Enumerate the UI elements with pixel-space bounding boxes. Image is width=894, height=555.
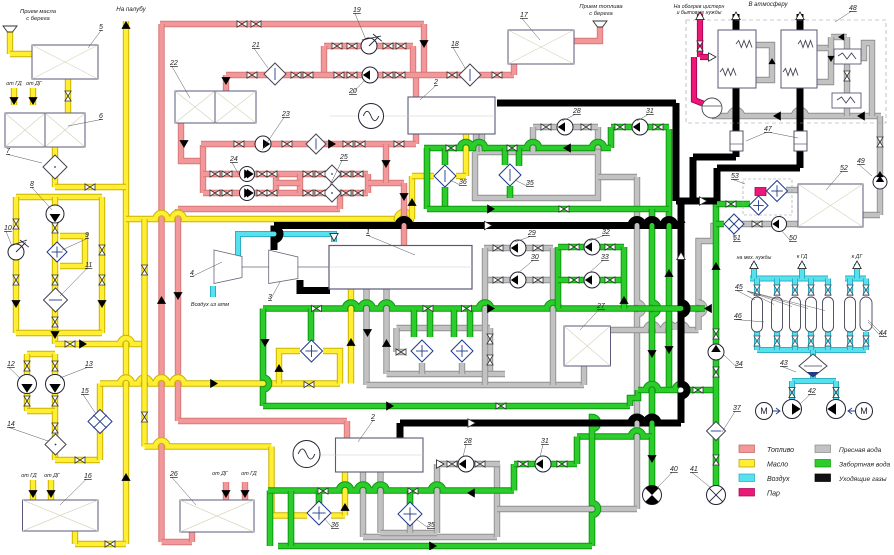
steam heater 53a: [767, 181, 788, 202]
valve fuel y75 d: [395, 72, 405, 78]
svg-text:43: 43: [780, 360, 788, 367]
arrow exhaust stack A: [732, 12, 740, 20]
label 43: [782, 367, 796, 373]
arrow fuel x386: [381, 160, 390, 168]
wire oil return x144: [141, 219, 147, 447]
wire oil tank15 stub: [72, 531, 78, 544]
wire fuel DG1 inlet x416: [413, 75, 419, 99]
wire oil funnel to tank5: [10, 51, 32, 57]
arrow fuel tank26 a: [221, 490, 230, 498]
arrow oil y383: [210, 379, 218, 388]
label 37: [722, 412, 735, 433]
wire fresh-water x831 up: [828, 37, 834, 48]
svg-text:15: 15: [81, 388, 89, 395]
arrow green x669 up: [664, 269, 673, 277]
arrow econ top: [838, 33, 844, 40]
arrow oil tank6 b: [28, 97, 37, 105]
svg-text:24: 24: [229, 156, 238, 163]
valve pump28b a: [447, 461, 457, 467]
wire fuel pump block left header: [200, 145, 206, 193]
svg-text:Забортная вода: Забортная вода: [839, 461, 891, 469]
svg-text:Топливо: Топливо: [767, 447, 794, 454]
label 10: [6, 232, 12, 247]
legend swatch Пар: [739, 489, 755, 497]
svg-text:16: 16: [84, 473, 92, 480]
wire fuel tank17 drop: [511, 64, 517, 75]
arrow oil riser x412: [407, 198, 416, 206]
valve pump31b a: [518, 461, 528, 467]
valve oil bottom y544: [105, 541, 115, 547]
valve fuel y75 b: [347, 72, 357, 78]
fuel filter 25a: [323, 165, 341, 183]
economizer upper coil: [838, 53, 856, 59]
wire oil deck main x126: [123, 21, 129, 544]
label 1: [368, 236, 415, 256]
arrow gray x386 up: [382, 339, 391, 347]
label 33: [589, 261, 603, 274]
wire oil от ДГ stub tank15 b: [48, 480, 54, 500]
water cooler 35b: [398, 502, 422, 526]
air bottle foot valve 0: [754, 336, 760, 346]
valve fuel y75 c: [383, 72, 393, 78]
oil transfer pump 8: [46, 205, 64, 223]
water cooler 31a: [411, 340, 433, 362]
sea filter 37: [707, 422, 726, 441]
air bottle head valve 2: [792, 285, 798, 295]
wire fuel booster line y46: [324, 43, 413, 49]
fuel pump 20: [362, 67, 378, 83]
wire oil от ГД stub tank15 a: [30, 480, 36, 500]
svg-text:Воздух: Воздух: [767, 475, 790, 483]
valve fuel y144 b: [282, 141, 292, 147]
arrow pump24b: [244, 188, 252, 197]
economizer upper: [834, 49, 861, 64]
arrow fuel x404: [399, 193, 408, 201]
valve loopB a1: [569, 244, 579, 250]
wire seawater x611 riser: [608, 127, 615, 148]
oil filter 7: [43, 155, 67, 179]
valve fuel row a8: [353, 171, 363, 177]
wire air top manifold left: [750, 276, 828, 282]
wire fresh-water x497 up: [494, 464, 500, 537]
wire air bottle 5 top riser: [847, 279, 853, 297]
wire seawater HX31 d1 stub in: [411, 310, 418, 337]
wire fresh-water econ stack: [844, 37, 850, 116]
svg-text:41: 41: [690, 466, 698, 473]
valve freshwater y224: [752, 221, 762, 227]
svg-text:На палубу: На палубу: [116, 6, 146, 13]
turbocharger turbine 3: [269, 250, 298, 284]
wire seawater y209: [427, 206, 669, 213]
sea filter 51: [724, 214, 744, 234]
label 44 second leader: [868, 320, 884, 336]
wire fuel DG2 drop x347: [344, 421, 350, 438]
label 15: [83, 395, 96, 415]
wire oil tank6 outlet: [52, 147, 58, 187]
valve oil pump13 b: [52, 396, 58, 406]
label 7: [8, 155, 42, 164]
wire oil tank5 outlet: [65, 79, 71, 113]
svg-text:19: 19: [353, 7, 361, 14]
arrow gray pump28b: [436, 460, 444, 468]
wire oil filter9 bypass: [60, 236, 85, 266]
label 53: [733, 180, 745, 185]
svg-text:M: M: [760, 406, 768, 416]
seawater pump 31b: [535, 456, 551, 472]
label 12: [9, 368, 20, 379]
valve green y209: [559, 206, 569, 212]
label 16: [60, 480, 86, 506]
economizer lower: [832, 93, 861, 108]
wire steam heater stub: [755, 188, 766, 196]
wire fuel funnel inlet: [574, 27, 600, 41]
label 21: [254, 49, 268, 69]
wire fresh-water x598 riser: [595, 127, 601, 152]
valve oil x55 a: [52, 223, 58, 233]
wire fuel right header: [365, 174, 371, 193]
wire seawater DG1 pump row green: [611, 124, 669, 131]
fuel fine filter: [306, 134, 326, 154]
wire seawater HX35 bottom stub: [507, 186, 514, 198]
wire seawater HX36 bottom stub: [442, 187, 449, 209]
svg-text:1: 1: [366, 229, 370, 236]
svg-text:Прием масла: Прием масла: [20, 9, 57, 15]
wire steam to boilerA: [700, 54, 712, 60]
wire oil riser x412: [409, 176, 415, 219]
svg-text:4: 4: [190, 270, 194, 277]
valve dg1 row d: [653, 124, 663, 130]
wire oil pump manifold top: [27, 351, 55, 357]
wire air feed DG: [854, 264, 860, 279]
wire fresh-water HX35b loop bottom: [381, 530, 438, 536]
label 45: [737, 291, 755, 301]
valve fuel row b5: [303, 190, 313, 196]
svg-text:2: 2: [370, 414, 375, 421]
wire oil pump manifold bottom: [27, 408, 55, 414]
label 2: [358, 421, 373, 443]
air bottle head valve 3: [808, 285, 814, 295]
label 6: [68, 120, 101, 127]
exhaust silencer 47a: [730, 131, 743, 151]
legend swatch Воздух: [739, 474, 755, 482]
fuel settling tank 22: [175, 91, 256, 123]
wire oil HX30 loop: [279, 351, 300, 384]
svg-text:53: 53: [731, 173, 739, 180]
svg-text:37: 37: [733, 405, 742, 412]
wire seawater bottom main y546: [278, 543, 592, 550]
svg-text:Воздух из атм: Воздух из атм: [191, 302, 229, 308]
wire exhaust bus y201: [676, 198, 717, 205]
wire fresh-water DG1 drain b: [479, 134, 485, 152]
label 20: [351, 81, 364, 95]
svg-text:M: M: [860, 406, 868, 416]
arrow gray y116 b: [857, 111, 865, 120]
valve fuel row a2: [222, 171, 232, 177]
svg-text:14: 14: [7, 421, 15, 428]
wire exhaust y157: [693, 154, 736, 161]
air bottle foot valve 4: [825, 336, 831, 346]
svg-text:6: 6: [99, 113, 103, 120]
valve oil x144 b: [141, 412, 147, 422]
svg-text:46: 46: [734, 313, 742, 320]
boiler A: [718, 30, 756, 88]
fuel funnel: [593, 21, 607, 27]
wire oil ring crossing at x404: [397, 212, 411, 226]
svg-text:50: 50: [789, 235, 797, 242]
valve fuel row a6: [315, 171, 325, 177]
valve loopA a1: [493, 245, 503, 251]
wire fresh-water pump29 row top: [484, 245, 553, 251]
wire fuel line y75: [226, 72, 514, 78]
wire fuel junction y183: [368, 180, 404, 186]
svg-text:11: 11: [85, 262, 92, 269]
svg-text:Масло: Масло: [767, 462, 788, 469]
wire exhaust boilerA stack: [733, 14, 740, 157]
wire air bottle 1 bottom stub: [774, 332, 780, 350]
wire seawater x592 riser: [592, 417, 598, 546]
label 4: [192, 262, 222, 277]
air bottle foot valve 3: [808, 336, 814, 346]
wire fresh-water boilerB loop: [817, 48, 831, 82]
label 35: [515, 180, 528, 187]
air bottle head valve 4: [825, 285, 831, 295]
label 42: [800, 395, 810, 405]
svg-text:21: 21: [251, 42, 260, 49]
wire air bottle 0 top riser: [754, 279, 760, 297]
wire oil to filter16: [52, 411, 58, 460]
oil pump 13: [46, 375, 65, 394]
valve fuel y144 d: [355, 141, 365, 147]
wire fuel tank26 bottom riser: [189, 531, 195, 542]
arrow green bottom y546: [429, 541, 437, 550]
air bottle head valve 0: [754, 285, 760, 295]
arrow green y308: [487, 304, 495, 313]
valve fuel y75 e: [447, 72, 457, 78]
valve seawater y204: [726, 201, 736, 207]
arrow fuel y144: [328, 139, 336, 148]
arrow green y308 end: [704, 304, 712, 313]
water cooler 35: [499, 164, 521, 186]
label 11: [60, 269, 87, 297]
wire air top manifold right: [845, 276, 866, 282]
wire fuel pump row y174: [203, 171, 368, 177]
valve fuel y75 h: [291, 72, 301, 78]
wire seawater x669 drop: [666, 129, 673, 390]
valve dg1 row b: [581, 124, 591, 130]
legend swatch Масло: [739, 460, 755, 468]
valve oil y344 left: [65, 341, 75, 347]
svg-text:10: 10: [4, 225, 12, 232]
wire oil от ГД stub tank6 a: [11, 88, 17, 105]
valve fuel y75 i: [303, 72, 313, 78]
wire fresh-water x533 drop: [530, 127, 536, 152]
svg-text:34: 34: [735, 361, 743, 368]
label 28: [562, 115, 575, 122]
air bottle 46-3: [806, 297, 817, 332]
label 30: [518, 261, 533, 274]
expansion tank 27: [564, 326, 611, 366]
label 14: [9, 428, 48, 442]
svg-text:и бытовые нужды: и бытовые нужды: [677, 10, 722, 16]
sea suction 41: [707, 486, 726, 505]
svg-text:20: 20: [348, 88, 357, 95]
wire fresh-water tank27 right stub: [611, 324, 699, 330]
label 26: [172, 478, 196, 506]
boiler unit frame 48: [686, 20, 886, 123]
seawater pump 34: [708, 344, 724, 360]
wire fresh-water engine drain x366: [363, 289, 369, 385]
valve dg1 row a: [541, 124, 551, 130]
wire air feed mech: [751, 264, 757, 279]
oil collecting tank 6: [5, 113, 85, 147]
fuel drain tank 26: [180, 500, 254, 532]
valve oil pump12 a: [24, 361, 30, 371]
wire fuel H bridge: [276, 180, 300, 186]
svg-text:36: 36: [459, 179, 467, 186]
label 28: [463, 445, 466, 458]
oil storage tank 5: [32, 45, 98, 79]
svg-text:32: 32: [602, 229, 610, 236]
arrow fuel tank22 in: [221, 77, 230, 85]
boiler B coil lower: [783, 69, 798, 76]
svg-text:44: 44: [879, 330, 887, 337]
arrow exhaust x681 up: [677, 252, 685, 260]
wire steam downcomer: [694, 57, 704, 104]
boiler A coil upper: [736, 41, 752, 48]
oil cooler 36: [434, 165, 456, 187]
wire fresh-water tank27 bottom stub: [581, 366, 587, 385]
feed water tank 52: [798, 184, 863, 227]
svg-text:Прием топлива: Прием топлива: [579, 4, 623, 10]
oil filter 9: [47, 242, 67, 262]
wire fresh-water zigzag lower: [699, 302, 705, 330]
valve pump28b b: [475, 461, 485, 467]
valve fuel y75 g: [247, 72, 257, 78]
motor M b: [856, 403, 873, 420]
svg-text:33: 33: [601, 254, 609, 261]
wire fresh-water pump49 feed: [877, 116, 883, 215]
wire fresh-water HX31 loop bottom: [387, 371, 506, 377]
label 25: [330, 161, 342, 186]
turbocharger compressor 4: [214, 250, 242, 284]
seawater pump 32: [584, 239, 600, 255]
wire oil DG2 riser x345: [342, 472, 348, 516]
wire oil engine sump drain: [348, 289, 354, 384]
wire exhaust boilerB stack: [797, 14, 804, 168]
arrow oil tank15 b: [46, 490, 55, 498]
arrow exhaust y199: [699, 197, 707, 205]
wire fuel tank22 feed x226: [223, 75, 229, 91]
valve green y406: [496, 403, 506, 409]
valve fuel y46 d: [396, 43, 406, 49]
wire fresh-water y509: [497, 506, 637, 512]
boiler B: [781, 30, 817, 88]
arrow oil y344: [79, 339, 87, 348]
wire fuel pump row y193: [203, 190, 368, 196]
svg-text:17: 17: [520, 12, 529, 19]
valve loopA b2: [533, 277, 543, 283]
wire fuel engine feed x404: [401, 183, 407, 245]
wire seawater HX36 loop: [424, 148, 431, 209]
svg-text:к ДГ: к ДГ: [852, 254, 864, 260]
generator symbol upper: [359, 104, 384, 129]
wire exhaust DG1 drop x676: [673, 103, 680, 201]
svg-text:от ДГ: от ДГ: [44, 473, 61, 479]
freshwater pump 30: [510, 272, 526, 288]
svg-text:52: 52: [840, 165, 848, 172]
arrow exhaust y423: [468, 419, 476, 427]
motor link b: [848, 408, 855, 414]
steam heater frame 53: [743, 179, 792, 215]
wire air dryer out: [810, 374, 816, 381]
arrow oil deck up: [121, 21, 130, 29]
wire fuel transfer main y144: [201, 141, 416, 147]
valve oil y383: [304, 381, 314, 387]
wire seawater HX36b top stub: [316, 491, 323, 505]
arrow pump49 up: [876, 171, 883, 177]
valve hx31 stub: [396, 349, 406, 355]
wire air bottle 2 top riser: [792, 279, 798, 297]
label 32: [589, 236, 604, 242]
oil cooler 36b: [307, 501, 331, 525]
svg-text:8: 8: [30, 181, 34, 188]
fuel booster pump 23: [255, 136, 271, 152]
wire oil x271 drop: [268, 447, 274, 516]
wire fuel x340 link: [337, 193, 343, 209]
label 47: [746, 133, 766, 142]
valve loopB b1: [569, 277, 579, 283]
wire fuel tank22 outlet: [181, 123, 203, 161]
arrow oil loop right: [97, 300, 106, 308]
wire seawater x577 riser: [574, 437, 581, 465]
freshwater pump 29: [510, 240, 526, 256]
arrow green x652 down: [647, 350, 656, 358]
wire seawater pump32 row bottom: [558, 277, 624, 284]
wire oil pump12 branch: [24, 354, 30, 411]
label 17: [522, 19, 540, 41]
valve oil x102 b: [99, 275, 105, 285]
wire fresh-water loopA right: [550, 248, 556, 385]
arrow gray engine drain: [363, 329, 372, 337]
valve fuel row a7: [341, 171, 351, 177]
svg-text:25: 25: [339, 154, 348, 161]
boiler A coil lower: [720, 69, 736, 76]
legend swatch Уходящие газы: [815, 474, 831, 482]
valve dg1 row c: [615, 124, 625, 130]
wire oil loop mid x55: [52, 197, 58, 344]
valve fuel y46 b: [347, 43, 357, 49]
wire seawater HX35 top stub: [502, 148, 509, 165]
valve kingston a: [713, 329, 719, 339]
wire air feed GD: [799, 264, 805, 279]
wire oil y446: [145, 441, 272, 447]
air bottle head valve 6: [863, 285, 869, 295]
arrow exhaust y225: [484, 221, 492, 229]
wire exhaust turbo3 to engine: [300, 280, 330, 291]
svg-text:29: 29: [527, 230, 536, 237]
arrow oil loop mid: [50, 331, 59, 339]
fuel filter 18: [459, 64, 481, 86]
arrow fuel x161 up: [157, 296, 166, 304]
wire air bottle 1 top riser: [774, 279, 780, 297]
wire fuel DG2 feed y421: [178, 418, 347, 424]
arrow oil tank15 a: [28, 490, 37, 498]
wire exhaust DG1 main y103: [497, 100, 676, 107]
wire fresh-water loopA left: [482, 248, 488, 385]
label 3: [270, 282, 280, 301]
wire seawater x652 drop: [652, 209, 658, 437]
freshwater pump 28a: [557, 119, 573, 135]
